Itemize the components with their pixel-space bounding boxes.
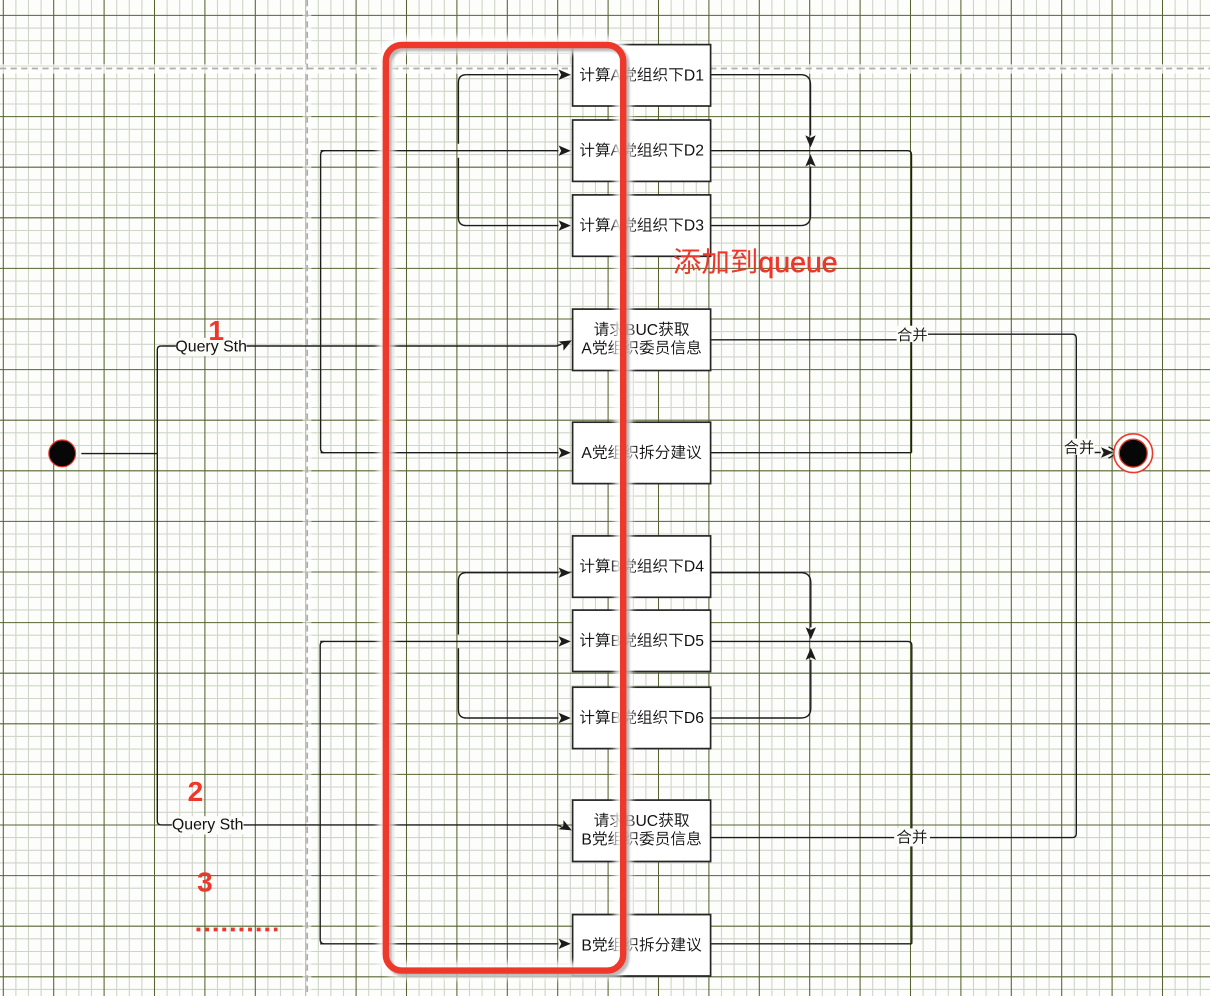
svg-text:A: A xyxy=(581,340,592,357)
svg-text:A: A xyxy=(581,445,592,462)
svg-text:D1: D1 xyxy=(684,67,704,84)
svg-text:3: 3 xyxy=(197,867,213,898)
svg-text:B: B xyxy=(581,831,591,848)
svg-text:D3: D3 xyxy=(684,218,704,235)
svg-text:queue: queue xyxy=(758,247,837,279)
svg-text:1: 1 xyxy=(208,315,224,346)
svg-text:B: B xyxy=(581,937,591,954)
svg-text:D5: D5 xyxy=(684,633,704,650)
svg-text:D4: D4 xyxy=(684,559,704,576)
svg-text:2: 2 xyxy=(188,776,204,807)
svg-text:D6: D6 xyxy=(684,710,704,727)
svg-text:D2: D2 xyxy=(684,143,704,160)
svg-text:Query Sth: Query Sth xyxy=(172,817,244,834)
